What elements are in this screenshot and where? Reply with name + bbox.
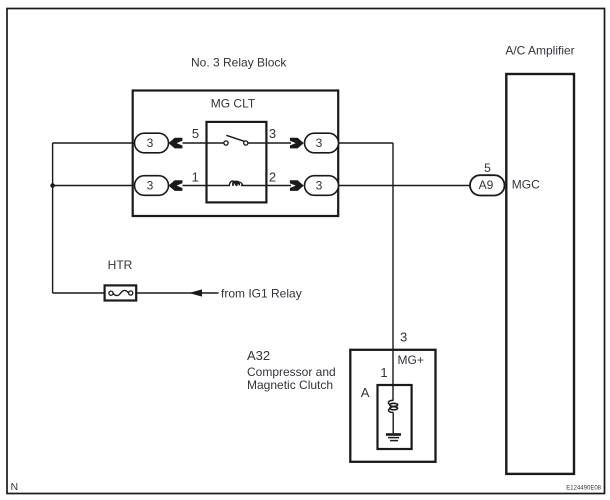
wire: row1 left (bus to oval) <box>53 142 135 144</box>
svg-text:A32: A32 <box>247 348 270 363</box>
wire: arrow to relay box row1 <box>183 142 207 144</box>
wire: row2 left (bus to oval) <box>53 185 135 187</box>
svg-text:A/C Amplifier: A/C Amplifier <box>505 44 574 58</box>
wire: row2 to A9 connector <box>339 185 471 187</box>
svg-text:MG CLT: MG CLT <box>211 97 256 111</box>
svg-text:2: 2 <box>269 169 276 184</box>
compressor A32 outer box <box>350 350 435 462</box>
wire: coil to ground <box>392 412 394 433</box>
wire: vertical down to compressor <box>392 143 394 401</box>
svg-text:5: 5 <box>484 161 491 175</box>
compressor inner box <box>378 385 412 449</box>
svg-text:3: 3 <box>147 179 154 193</box>
arrow (right, row1, pointing right) <box>290 138 304 149</box>
svg-text:A: A <box>361 385 370 400</box>
svg-text:HTR: HTR <box>108 258 133 272</box>
arrow (left, row2, pointing left) <box>169 180 183 191</box>
relay MG CLT inner box <box>207 122 267 202</box>
switch contact circles <box>224 141 228 145</box>
wire: bus to fuse <box>53 292 104 294</box>
wire: row1 right run to vertical <box>339 142 394 144</box>
wire: inside relay, row1 left <box>208 142 225 144</box>
fuse element wavy line <box>113 290 128 295</box>
wire: fuse to IG1 arrow <box>137 292 219 294</box>
wire: relay box to right arrow row1 <box>267 142 292 144</box>
svg-text:3: 3 <box>147 136 154 150</box>
svg-text:Magnetic Clutch: Magnetic Clutch <box>247 378 333 392</box>
svg-text:E124490E08: E124490E08 <box>566 486 601 492</box>
relay block box <box>133 91 339 217</box>
svg-text:N: N <box>11 482 18 493</box>
wire: inside relay, row2 right <box>241 185 265 187</box>
connector terminal 3 (right, row2) <box>305 176 339 196</box>
svg-text:from IG1 Relay: from IG1 Relay <box>221 287 302 301</box>
svg-text:A9: A9 <box>479 178 494 192</box>
svg-text:3: 3 <box>269 126 276 141</box>
fuse terminal circles <box>109 291 113 295</box>
fuse HTR box <box>105 285 137 300</box>
wire: left vertical bus x=52.6 <box>52 143 54 293</box>
connector terminal A9 <box>470 175 505 195</box>
arrowhead from IG1 Relay (pointing left) <box>189 289 202 296</box>
A/C amplifier box <box>506 74 574 474</box>
svg-text:No. 3 Relay Block: No. 3 Relay Block <box>191 56 287 70</box>
relay coil <box>229 181 242 186</box>
svg-text:1: 1 <box>380 365 387 380</box>
svg-text:MG+: MG+ <box>398 353 424 367</box>
arrow (left, row1, pointing left) <box>169 138 183 149</box>
clutch coil <box>388 400 393 404</box>
svg-text:MGC: MGC <box>512 178 540 192</box>
svg-text:3: 3 <box>316 136 323 150</box>
ground symbol <box>386 433 401 436</box>
wire: arrow to relay box row2 <box>183 185 207 187</box>
wire: inside relay, row2 left <box>208 185 231 187</box>
wire: inside relay, row1 right <box>248 142 266 144</box>
svg-text:5: 5 <box>192 126 199 141</box>
connector terminal 3 (left, row1) <box>135 133 169 153</box>
wire: relay box to right arrow row2 <box>267 185 292 187</box>
svg-text:3: 3 <box>400 329 407 344</box>
switch blade <box>226 135 244 141</box>
svg-text:1: 1 <box>192 169 199 184</box>
svg-text:3: 3 <box>316 179 323 193</box>
connector terminal 3 (left, row2) <box>135 176 169 196</box>
connector terminal 3 (right, row1) <box>305 133 339 153</box>
arrow (right, row2, pointing right) <box>290 180 304 191</box>
node: junction at (52.6,185.5) <box>50 183 55 188</box>
